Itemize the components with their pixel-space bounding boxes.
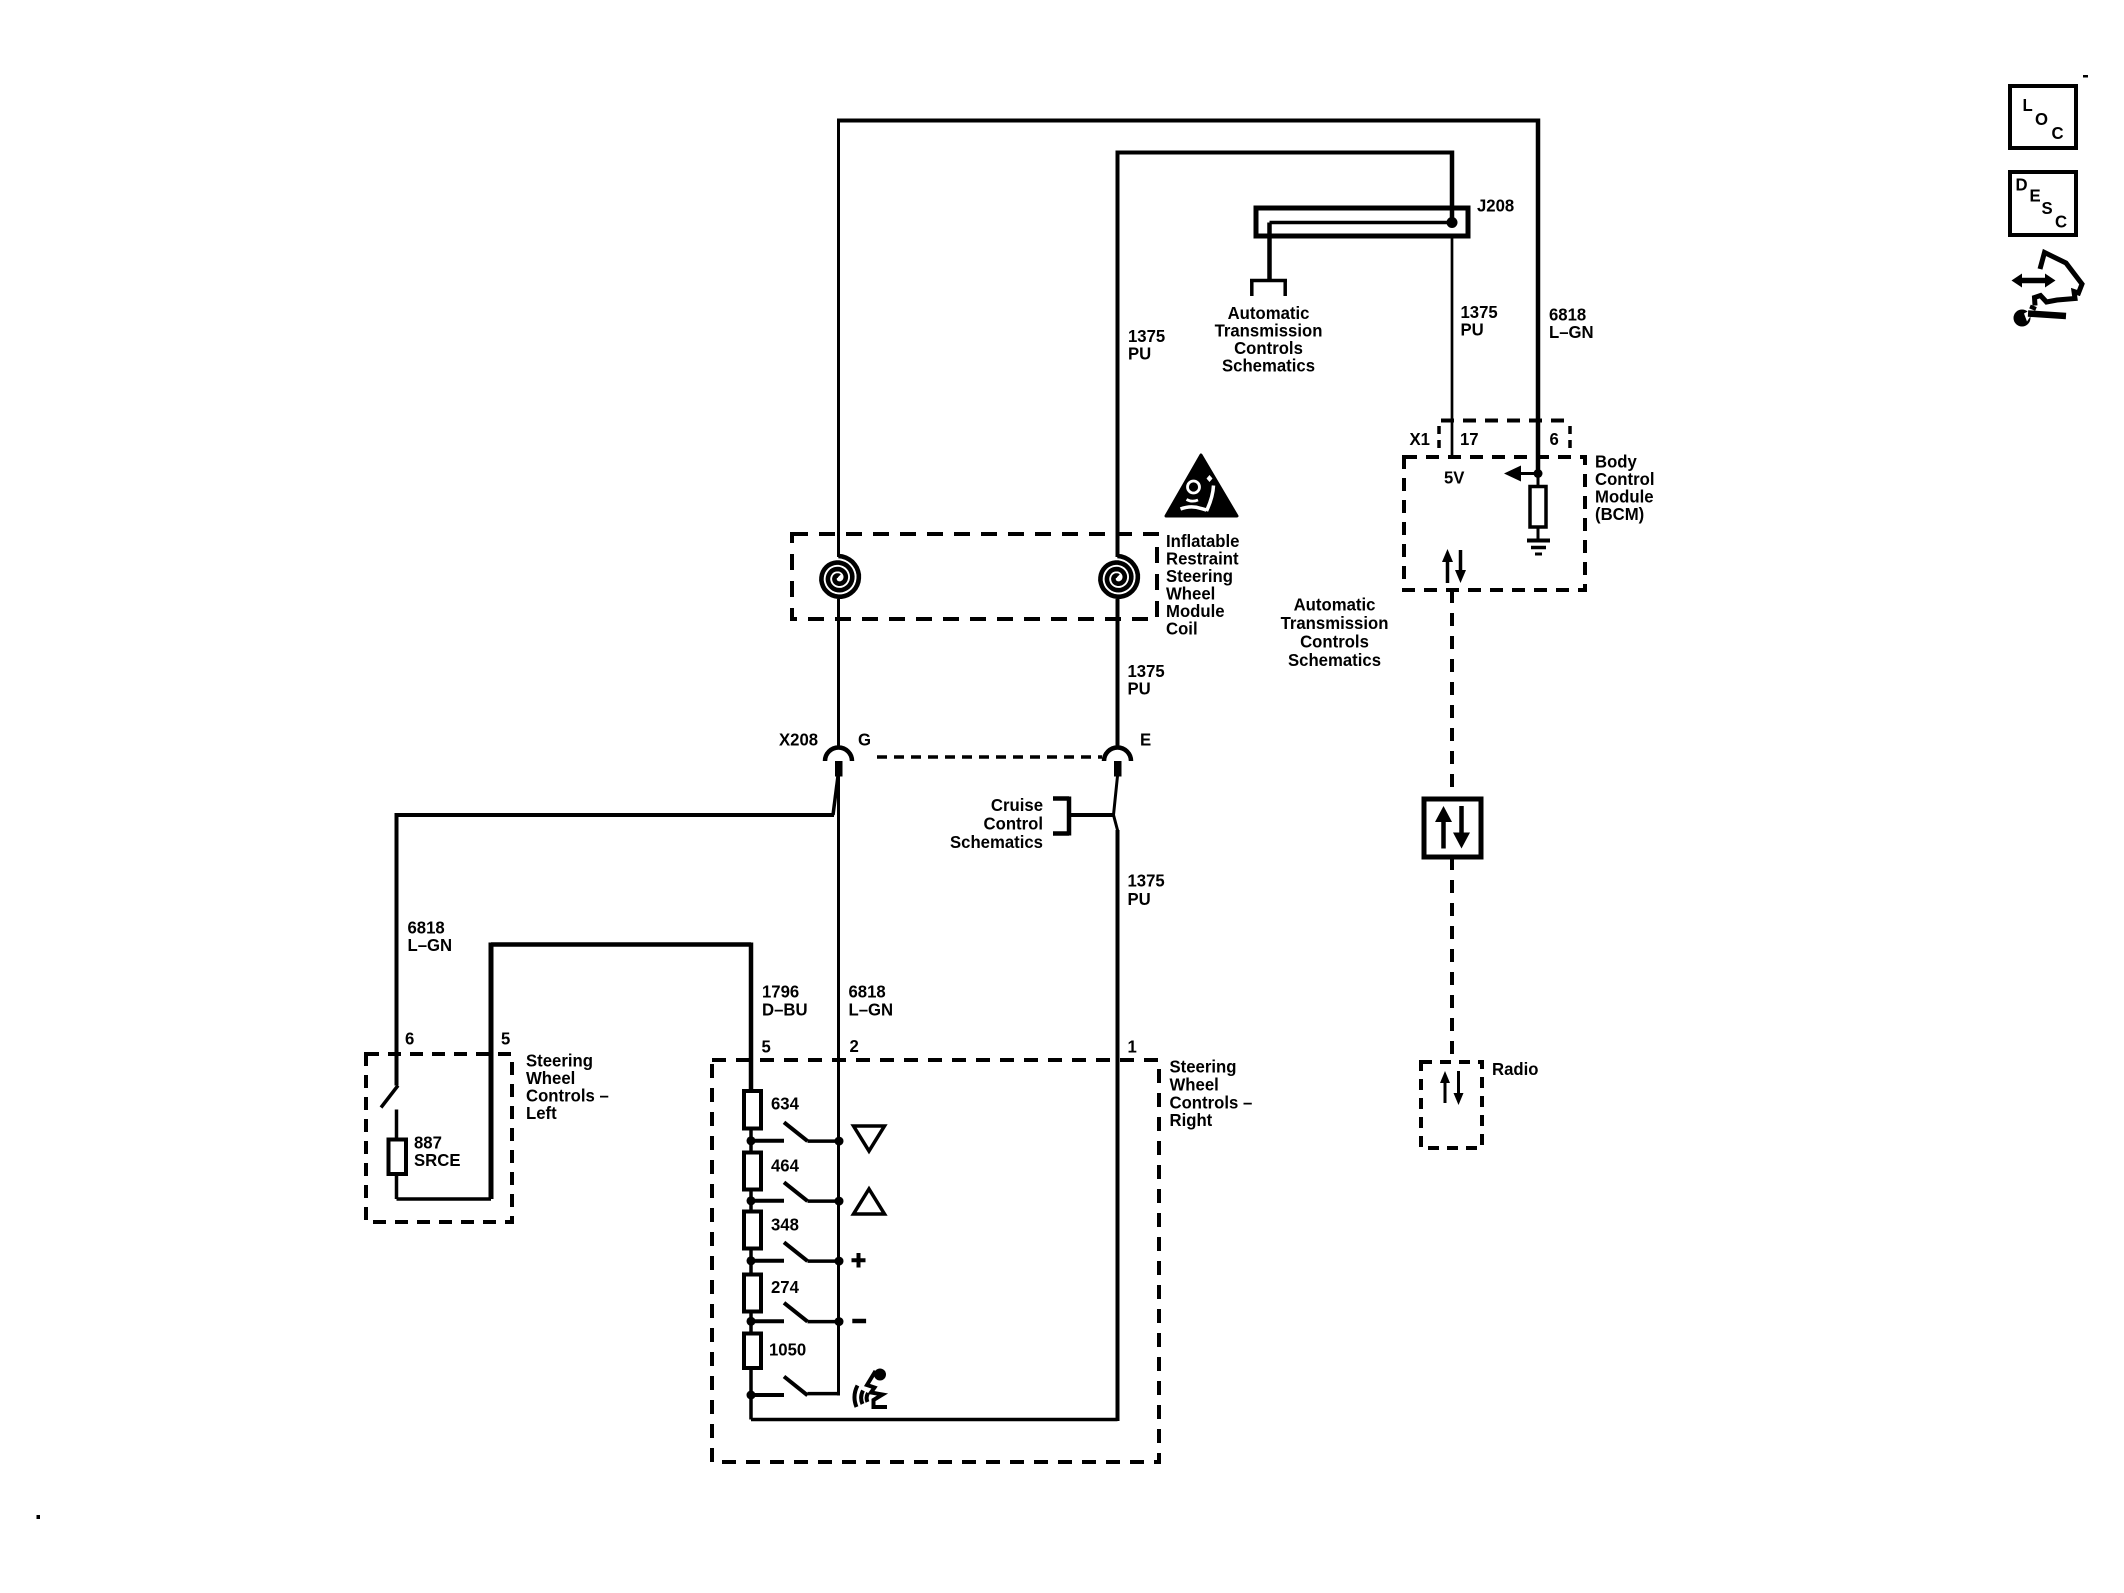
svg-text:G: G <box>858 729 871 750</box>
wire from J208 down <box>1267 223 1272 280</box>
resistor 348 <box>744 1212 761 1249</box>
cruise control tap wire <box>1070 813 1114 817</box>
double headed arrow <box>2020 278 2047 284</box>
wire 6818 below coil <box>837 599 840 746</box>
junction dot <box>747 1391 756 1400</box>
Body Control Module (BCM) dashed box <box>1404 457 1585 590</box>
svg-text:S: S <box>2042 197 2053 218</box>
seek minus icon <box>852 1319 866 1324</box>
svg-text:PU: PU <box>1128 888 1151 909</box>
wire bottom horizontal SWC-Right <box>751 1418 1118 1422</box>
svg-text:5: 5 <box>762 1036 772 1057</box>
svg-text:634: 634 <box>771 1093 799 1114</box>
wire to resistor 887 <box>395 1110 399 1140</box>
switch blade <box>784 1303 808 1322</box>
svg-text:Schematics: Schematics <box>1288 649 1381 670</box>
switch blade <box>784 1182 808 1201</box>
svg-text:L–GN: L–GN <box>408 934 453 955</box>
junction dot <box>747 1196 756 1205</box>
wire 1375 PU below J208 <box>1451 238 1454 456</box>
wire 1375 PU down to SWC-Right pin 1 <box>1116 830 1120 1421</box>
svg-text:2: 2 <box>850 1035 859 1056</box>
svg-text:Schematics: Schematics <box>950 831 1043 852</box>
wire slant at E <box>1114 776 1119 832</box>
chain wire <box>749 1312 753 1334</box>
svg-text:Schematics: Schematics <box>1222 355 1315 376</box>
switch stub right <box>808 1139 840 1143</box>
wire 1796 D-BU to SWC-Right pin 5 <box>749 943 754 1092</box>
wire inside J208 <box>1270 221 1453 225</box>
volume down icon <box>854 1126 885 1151</box>
resistor 274 <box>744 1275 761 1312</box>
svg-text:PU: PU <box>1461 319 1484 340</box>
svg-text:D: D <box>2016 174 2028 195</box>
svg-text:6: 6 <box>1550 428 1560 449</box>
svg-text:L: L <box>2023 94 2034 115</box>
switch blade <box>784 1122 808 1141</box>
switch blade <box>784 1242 808 1261</box>
svg-text:1: 1 <box>1128 1036 1138 1057</box>
wire 1375 PU vertical to J208 <box>1450 151 1455 223</box>
resistor 1050 <box>744 1334 761 1369</box>
wire bottom horizontal SWC-Left <box>397 1197 492 1201</box>
off-page connector fork (Automatic Transmission Controls) <box>1250 281 1287 297</box>
svg-text:(BCM): (BCM) <box>1595 503 1644 524</box>
wire 6818 L-GN down to SWC-Right pin 2 <box>837 776 840 1396</box>
connector X208 dashed line <box>877 755 1102 759</box>
resistor 634 <box>744 1091 761 1129</box>
contact dot <box>835 1317 844 1326</box>
pull-up resistor in BCM <box>1537 477 1540 487</box>
switch stub left <box>751 1199 784 1203</box>
seek plus icon <box>852 1253 866 1268</box>
chain wire <box>749 1368 753 1420</box>
BCM bidirectional arrows <box>1446 560 1450 583</box>
Steering Wheel Controls - Right dashed box <box>712 1060 1159 1462</box>
wire 1375 below coil <box>1116 599 1120 746</box>
svg-text:C: C <box>2055 211 2068 232</box>
svg-text:E: E <box>2030 185 2041 206</box>
switch stub right to pin 2 line <box>808 1392 839 1396</box>
LOC hotlink box <box>2010 86 2076 148</box>
connector X1 dashed strip <box>1441 419 1568 423</box>
switch blade <box>784 1377 808 1396</box>
connector E terminal stub <box>1114 761 1122 777</box>
wire 6818 L-GN left vertical above coil <box>837 119 840 558</box>
connector E arc <box>1104 748 1131 762</box>
wire 1375 PU vertical above coil <box>1116 151 1120 558</box>
airbag warning triangle <box>1166 455 1237 516</box>
serial data gateway box with arrows <box>1424 799 1481 857</box>
wire 1375 PU upper horizontal <box>1118 151 1453 155</box>
svg-text:J208: J208 <box>1477 195 1515 216</box>
tiny page mark top right <box>2083 75 2088 78</box>
junction dot <box>747 1317 756 1326</box>
svg-text:Coil: Coil <box>1166 618 1198 639</box>
Radio dashed box <box>1421 1062 1482 1148</box>
off-page bracket (Cruise Control) <box>1053 797 1069 836</box>
volume up icon <box>854 1189 885 1214</box>
switch stub right <box>808 1320 840 1324</box>
voice recognition icon <box>854 1371 887 1407</box>
resistor 887 SRCE <box>389 1140 407 1175</box>
switch stub left <box>751 1319 784 1323</box>
wire 6818 L-GN vertical to BCM pin 6 <box>1536 119 1541 474</box>
svg-text:17: 17 <box>1460 428 1479 449</box>
chain wire <box>749 1190 753 1212</box>
switch stub left <box>751 1259 784 1263</box>
svg-text:C: C <box>2052 122 2065 143</box>
splice pack J208 box <box>1256 208 1468 236</box>
Inflatable Restraint Steering Wheel Module Coil dashed box <box>792 534 1157 619</box>
wire 6818 L-GN down to SWC-Left pin 6 <box>395 813 399 1086</box>
svg-text:E: E <box>1140 729 1151 750</box>
diagnostic arrow outline icon <box>2035 253 2083 306</box>
wire resistor to bottom <box>395 1174 399 1199</box>
DESC hotlink box <box>2010 172 2076 235</box>
dashed serial data wire BCM to gateway <box>1450 590 1454 799</box>
wire SWC-Left pin 5 vertical <box>489 943 494 1200</box>
junction dot <box>747 1136 756 1145</box>
Steering Wheel Controls - Left dashed box <box>366 1054 512 1222</box>
wire splice slant at G <box>833 776 838 815</box>
coil spiral left <box>821 556 858 597</box>
svg-text:PU: PU <box>1128 343 1151 364</box>
junction dot pin 6 net <box>1534 469 1543 478</box>
svg-text:274: 274 <box>771 1277 799 1298</box>
svg-text:348: 348 <box>771 1214 799 1235</box>
svg-text:5V: 5V <box>1444 467 1465 488</box>
svg-text:O: O <box>2035 108 2048 129</box>
svg-text:Radio: Radio <box>1492 1058 1538 1079</box>
svg-text:X208: X208 <box>779 729 818 750</box>
svg-text:5: 5 <box>501 1028 511 1049</box>
svg-text:464: 464 <box>771 1155 799 1176</box>
switch blade SWC-Left <box>381 1086 398 1108</box>
svg-text:D–BU: D–BU <box>762 999 808 1020</box>
resistor 464 <box>744 1153 761 1190</box>
wire horizontal to SWC pin 5s <box>491 942 751 947</box>
connector G arc <box>825 748 852 762</box>
wire 6818 L-GN horizontal to left <box>397 813 835 817</box>
switch stub left <box>751 1139 784 1143</box>
junction dot <box>747 1256 756 1265</box>
chain wire <box>749 1129 753 1153</box>
contact dot <box>835 1257 844 1266</box>
chain wire <box>749 1249 753 1275</box>
svg-text:L–GN: L–GN <box>1549 321 1594 342</box>
coil spiral right <box>1100 556 1137 597</box>
svg-text:PU: PU <box>1128 678 1151 699</box>
connector G terminal stub <box>835 761 843 777</box>
svg-text:X1: X1 <box>1410 428 1431 449</box>
signal arrow into BCM logic <box>1519 472 1539 475</box>
svg-text:Right: Right <box>1170 1109 1213 1130</box>
wire 6818 L-GN top horizontal <box>839 119 1539 123</box>
contact dot <box>835 1137 844 1146</box>
svg-text:1050: 1050 <box>769 1339 806 1360</box>
svg-text:Left: Left <box>526 1102 557 1123</box>
switch stub left <box>751 1393 784 1397</box>
switch stub right <box>808 1259 840 1263</box>
svg-text:L–GN: L–GN <box>849 999 894 1020</box>
svg-text:SRCE: SRCE <box>414 1149 460 1170</box>
contact dot <box>835 1197 844 1206</box>
svg-text:6: 6 <box>405 1028 415 1049</box>
wrench icon <box>2014 310 2031 327</box>
junction dot in J208 <box>1447 217 1458 228</box>
ground symbol in BCM <box>1527 539 1550 543</box>
switch stub right <box>808 1199 840 1203</box>
tiny page mark bottom left <box>37 1515 41 1519</box>
dashed serial data wire to radio <box>1450 857 1454 1062</box>
